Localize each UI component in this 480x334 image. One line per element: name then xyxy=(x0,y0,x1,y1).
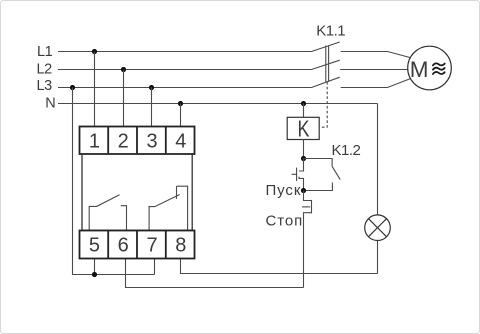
svg-text:Стоп: Стоп xyxy=(266,212,304,229)
svg-text:K1.1: K1.1 xyxy=(316,23,345,40)
svg-text:Пуск: Пуск xyxy=(266,182,302,199)
svg-text:N: N xyxy=(45,95,55,111)
svg-text:L1: L1 xyxy=(37,44,53,60)
wire N bus xyxy=(58,103,378,105)
junction Pusk bottom node xyxy=(301,188,306,193)
svg-text:7: 7 xyxy=(146,235,157,257)
svg-text:K: K xyxy=(298,116,310,142)
wire terminal 4 drop xyxy=(180,104,182,127)
button Pusk plunger xyxy=(296,168,298,181)
button Pusk stem xyxy=(292,173,297,175)
wire contact to motor top xyxy=(341,52,411,58)
svg-text:K1.2: K1.2 xyxy=(332,142,361,159)
svg-text:L2: L2 xyxy=(37,61,53,77)
coil K xyxy=(287,117,319,139)
svg-text:6: 6 xyxy=(118,235,129,257)
wire terminal 1 drop xyxy=(94,52,96,127)
wire L2 bus xyxy=(58,69,312,71)
button Stop lower bend xyxy=(304,213,312,288)
wire lamp bottom xyxy=(377,241,379,274)
contact K1.2 top wire xyxy=(304,159,333,167)
svg-text:M: M xyxy=(410,57,429,82)
junction N to terminal 4 xyxy=(178,101,183,106)
relay contact fixed 6 xyxy=(121,206,127,231)
wire terminal 5 down xyxy=(94,259,96,275)
relay bottom terminal row xyxy=(80,231,195,259)
wire coil K top xyxy=(303,104,305,118)
contactor K1.1 contact L3 xyxy=(312,77,340,87)
svg-text:4: 4 xyxy=(175,130,186,152)
contactor K1.1 linkage bars xyxy=(325,46,327,82)
junction L3 to terminal 3 xyxy=(149,85,154,90)
relay contact pole 5 xyxy=(89,195,119,231)
junction N to coil K xyxy=(301,101,306,106)
wire contact to motor bottom xyxy=(341,79,411,88)
wire L1 bus xyxy=(58,51,312,53)
button Pusk wire top xyxy=(299,159,304,172)
contactor K1.1 contact L2 xyxy=(312,60,340,69)
contactor K1.1 contact L1 xyxy=(312,42,340,52)
button Stop bridge bar xyxy=(311,200,313,213)
junction L2 to terminal 2 xyxy=(121,67,126,72)
junction coil bottom node xyxy=(301,156,306,161)
svg-text:5: 5 xyxy=(89,235,100,257)
wire terminal 6 to stop button xyxy=(126,259,304,288)
junction L3 to left feeder xyxy=(70,85,75,90)
lamp xyxy=(365,215,391,241)
wire terminal 7 down xyxy=(154,259,156,275)
motor M xyxy=(408,46,452,90)
wire left feeder down xyxy=(73,88,155,275)
contact K1.2 arm xyxy=(332,166,340,179)
linkage dashed wire K1.1 to coil xyxy=(319,82,327,127)
button Stop stem xyxy=(302,206,310,208)
wire terminal 8 to lamp xyxy=(181,259,378,274)
relay contact stub 7-8 xyxy=(176,186,178,199)
relay contact pole 7 xyxy=(149,195,180,231)
junction L1 to terminal 1 xyxy=(92,49,97,54)
relay top terminal row xyxy=(80,127,195,155)
wire N to lamp top xyxy=(377,104,379,215)
svg-text:3: 3 xyxy=(146,130,157,152)
button Stop upper bend xyxy=(304,191,312,201)
wire L3 bus xyxy=(58,87,312,89)
wire terminal 2 drop xyxy=(123,70,125,127)
svg-text:8: 8 xyxy=(175,235,186,257)
wire contact to motor mid xyxy=(340,69,407,71)
svg-text:L3: L3 xyxy=(37,78,53,94)
junction terminal 5 to feeder xyxy=(92,272,97,277)
wire coil K bottom xyxy=(303,140,305,159)
relay contact fixed 8 xyxy=(177,186,188,230)
relay body box xyxy=(82,154,192,230)
svg-text:2: 2 xyxy=(118,130,129,152)
button Pusk lower contact xyxy=(299,177,304,191)
svg-text:1: 1 xyxy=(89,130,100,152)
contact K1.2 bottom wire xyxy=(304,183,333,191)
wire terminal 3 drop xyxy=(151,88,153,127)
